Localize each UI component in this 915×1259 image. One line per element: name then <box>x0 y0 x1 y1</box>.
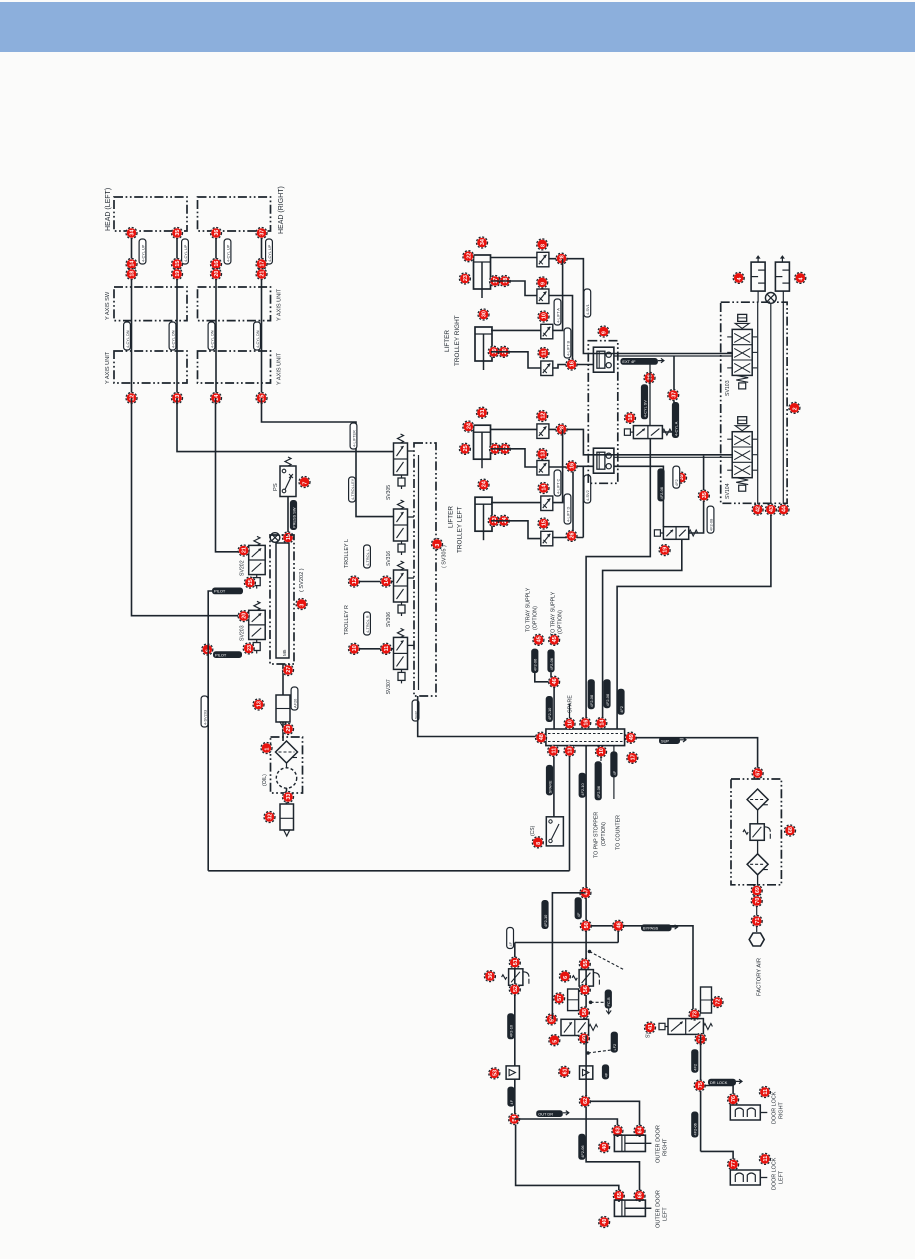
label pill fa <box>541 900 548 929</box>
node tag PS right <box>299 477 310 488</box>
node tag regc b <box>579 984 590 995</box>
svg-text:11: 11 <box>542 350 548 356</box>
flow control valve FCV8 <box>541 531 553 546</box>
wire door lock right <box>705 1086 733 1101</box>
solenoid valve stack SV103 <box>738 314 747 321</box>
node tag rod3 <box>488 346 499 357</box>
node tag cylside2 <box>459 273 470 284</box>
muffler 2 <box>775 262 789 291</box>
label pill pilot bus <box>201 696 208 727</box>
svg-text:17: 17 <box>630 754 636 760</box>
svg-text:70: 70 <box>755 898 761 904</box>
node tag SV203 out <box>243 643 254 654</box>
wire spare port <box>569 704 571 724</box>
node tag odl2 <box>634 1190 645 1201</box>
wire line3 down to SV202 <box>216 398 249 552</box>
node tag 28 <box>556 253 567 264</box>
label pill lc3 <box>507 1087 514 1107</box>
svg-text:( SV305 ): ( SV305 ) <box>442 545 448 568</box>
filter-regulator box <box>276 695 290 722</box>
svg-text:4F2-08: 4F2-08 <box>708 519 713 531</box>
wire filter to pump box <box>282 722 284 741</box>
svg-text:4F2: 4F2 <box>674 479 679 486</box>
node tag CS <box>532 837 543 848</box>
wire line4 down elbow <box>262 398 394 517</box>
svg-text:HEAD (RIGHT): HEAD (RIGHT) <box>278 186 285 234</box>
svg-text:21: 21 <box>242 547 248 553</box>
svg-text:SV306: SV306 <box>386 612 392 627</box>
svg-text:43: 43 <box>769 506 775 512</box>
node tag 32 <box>264 812 275 823</box>
wire frl out <box>757 875 759 885</box>
node tag cyl2 top <box>478 309 489 320</box>
svg-text:31: 31 <box>480 409 486 415</box>
svg-text:(OPTION): (OPTION) <box>601 822 607 846</box>
svg-text:64: 64 <box>638 1127 644 1133</box>
svg-text:SUP: SUP <box>661 738 669 743</box>
svg-text:4-TROL L: 4-TROL L <box>365 548 370 566</box>
svg-text:LIFTER: LIFTER <box>444 330 451 352</box>
svg-text:AF20: AF20 <box>292 698 297 708</box>
svg-text:4: 4 <box>798 278 804 281</box>
wire SV307 to manifold <box>408 644 415 646</box>
svg-text:24: 24 <box>466 423 472 429</box>
regulator small right <box>701 987 712 1013</box>
svg-text:4F2-08: 4F2-08 <box>659 487 664 499</box>
svg-text:PRESS SW: PRESS SW <box>291 507 296 528</box>
svg-text:LIFTER: LIFTER <box>448 506 455 528</box>
valve pilot lower <box>663 527 688 540</box>
svg-text:22: 22 <box>466 253 472 259</box>
wire frl2 <box>757 840 759 853</box>
svg-text:4-CYL DN: 4-CYL DN <box>255 330 260 348</box>
dashed box FRL <box>731 779 781 885</box>
node tag 40a <box>599 1142 610 1153</box>
wire cyl2 cap to FCV3 <box>491 329 541 331</box>
label pill chk r <box>602 1064 609 1079</box>
node tag head4d <box>256 393 267 404</box>
node tag odr1 <box>612 1125 623 1136</box>
svg-text:HEAD (LEFT): HEAD (LEFT) <box>105 188 112 231</box>
regulator left column <box>509 969 523 986</box>
node tag fcv1 <box>537 239 548 250</box>
svg-text:4F2-06: 4F2-06 <box>533 659 538 671</box>
node tag fa2 <box>751 896 762 907</box>
filter box main <box>568 989 579 1011</box>
node tag fm <box>554 993 565 1004</box>
svg-text:72: 72 <box>716 999 722 1005</box>
label pill cs <box>546 765 553 796</box>
node tag 40b <box>599 1217 610 1228</box>
svg-text:4F: 4F <box>612 770 617 775</box>
node tag busC <box>778 504 789 515</box>
svg-text:4: 4 <box>737 278 743 281</box>
node tag 12 <box>349 576 360 587</box>
svg-text:7: 7 <box>303 482 309 485</box>
svg-text:4-LIFTER: 4-LIFTER <box>351 430 356 447</box>
cylinder trolley 2 <box>475 327 492 361</box>
svg-text:51: 51 <box>513 959 519 965</box>
label pill trolley R <box>364 612 371 635</box>
wire cyl4 rod to FCV8 <box>491 521 541 539</box>
node tag 6 <box>202 644 213 655</box>
black arrow pill bypass <box>641 924 678 931</box>
svg-text:PS: PS <box>273 483 279 491</box>
svg-text:25: 25 <box>248 579 254 585</box>
node tag head4a <box>256 228 267 239</box>
muffler 1 <box>751 262 765 291</box>
node tag 27 <box>283 665 294 676</box>
svg-text:4F2-10: 4F2-10 <box>547 707 552 720</box>
svg-text:( SV202 ): ( SV202 ) <box>299 568 305 592</box>
dashed box Y AXIS UNIT row3 left <box>114 351 187 383</box>
node tag 2 <box>789 402 800 413</box>
valve pilot upper <box>633 426 662 439</box>
svg-text:Y AXIS UNIT: Y AXIS UNIT <box>277 352 283 385</box>
svg-text:RIGHT: RIGHT <box>663 1138 669 1156</box>
svg-text:27: 27 <box>286 667 292 673</box>
node tag 19 <box>659 545 670 556</box>
svg-text:4F2: 4F2 <box>619 706 624 713</box>
label pill AF20 <box>291 687 298 710</box>
svg-text:DOOR LOCK: DOOR LOCK <box>772 1157 778 1190</box>
wire sv111 down <box>700 1034 702 1151</box>
wire outer door left rod <box>516 1125 619 1192</box>
svg-text:16: 16 <box>583 720 589 726</box>
wire bus A <box>757 302 759 504</box>
node tag v b <box>578 1033 589 1044</box>
node tag muf2 <box>795 272 806 283</box>
svg-text:68: 68 <box>788 827 794 833</box>
node tag chk l <box>489 1068 500 1079</box>
node tag fcv4 <box>538 348 549 359</box>
svg-text:SV305: SV305 <box>386 485 392 500</box>
svg-text:50: 50 <box>584 922 590 928</box>
wire manifold supply down <box>418 696 546 737</box>
node tag 16 <box>566 359 577 370</box>
svg-text:4-CYL UP: 4-CYL UP <box>225 244 230 262</box>
svg-text:45: 45 <box>552 636 558 642</box>
wire block2 left drop <box>582 466 584 537</box>
node tag odl1 <box>613 1190 624 1201</box>
wire left col horizontal <box>515 942 618 944</box>
junction circle-x main <box>765 293 776 304</box>
label pill tray2 <box>547 649 554 672</box>
valve SV307 <box>394 637 408 669</box>
black arrow pill EXT <box>620 358 664 365</box>
svg-text:35: 35 <box>175 230 181 236</box>
node tag cylside1 <box>463 251 474 262</box>
node tag regc t <box>579 958 590 969</box>
factory air hexagon <box>749 933 764 946</box>
label pill line37 <box>672 402 679 438</box>
node tag 1 <box>261 743 272 754</box>
wire head line 4 <box>261 231 263 398</box>
wire FCV4 out to block1 left <box>553 365 594 369</box>
svg-text:SV202: SV202 <box>240 560 246 576</box>
svg-text:74: 74 <box>699 1036 705 1042</box>
node tag bar r <box>625 732 636 743</box>
node tag SV202 out <box>244 577 255 588</box>
svg-text:Y AXIS SW: Y AXIS SW <box>105 291 111 320</box>
node tag head2c <box>172 269 183 280</box>
label pill lc2 <box>507 1013 514 1039</box>
svg-text:4-CYL UP: 4-CYL UP <box>183 244 188 262</box>
svg-text:FC-B: FC-B <box>606 997 611 1006</box>
node tag v l <box>546 1014 557 1025</box>
wire fa gap <box>756 906 758 916</box>
wire outer door left cap <box>586 1107 639 1192</box>
svg-text:10: 10 <box>352 645 358 651</box>
node tag head1c <box>126 269 137 280</box>
valve SV316 <box>394 509 408 541</box>
svg-text:16: 16 <box>570 463 576 469</box>
label pill head line 2 <box>182 239 189 264</box>
node tag 41 <box>645 1022 656 1033</box>
svg-text:61: 61 <box>562 1068 568 1074</box>
node tag 6b <box>559 971 570 982</box>
node tag busB <box>765 504 776 515</box>
node tag head1d <box>126 393 137 404</box>
node tag tray1 <box>533 634 544 645</box>
filter diamond 2 <box>747 854 768 875</box>
svg-text:53: 53 <box>492 1070 498 1076</box>
svg-text:60: 60 <box>582 1035 588 1041</box>
wire supply from stacks to bar <box>617 515 771 729</box>
svg-text:Y AXIS UNIT: Y AXIS UNIT <box>105 351 111 384</box>
svg-text:55: 55 <box>583 961 589 967</box>
svg-text:4-CYL DN: 4-CYL DN <box>170 330 175 348</box>
label pill manifold bottom <box>412 700 419 721</box>
node tag reg t <box>509 957 520 968</box>
node tag chk m <box>559 1066 570 1077</box>
svg-text:4F2: 4F2 <box>693 1064 698 1071</box>
label pill bar mid <box>588 679 595 709</box>
cylinder trolley 1 <box>474 255 491 289</box>
valve SV111 <box>668 1019 703 1035</box>
svg-text:63: 63 <box>616 1127 622 1133</box>
label pill sv line <box>641 384 648 419</box>
node tag head3a <box>211 228 222 239</box>
wire bus B <box>770 303 772 504</box>
svg-text:4-CYL SV: 4-CYL SV <box>642 400 647 418</box>
node tag SW in <box>283 532 294 543</box>
pilot block upper <box>593 347 614 372</box>
annotation leader to main line 1 <box>590 952 624 970</box>
label pill on line4 elbow <box>349 477 356 502</box>
node tag head1a <box>126 228 137 239</box>
filter diamond 1 <box>747 789 768 810</box>
node tag muf1 <box>733 272 744 283</box>
switch box CS <box>546 817 563 846</box>
node tag head2d <box>172 393 183 404</box>
black arrow pill door lock <box>708 1079 742 1086</box>
svg-text:4F2-06: 4F2-06 <box>596 786 601 798</box>
svg-text:4F2-06: 4F2-06 <box>580 1145 585 1157</box>
svg-text:66: 66 <box>638 1192 644 1198</box>
cylinder trolley 3 <box>474 425 491 459</box>
wire tray join <box>535 673 554 682</box>
node tag 18 <box>625 412 636 423</box>
label pill v2r <box>707 506 714 533</box>
node tag 28b <box>556 424 567 435</box>
svg-text:4-CYL UP: 4-CYL UP <box>267 244 272 262</box>
black arrow pill odr <box>536 1110 569 1117</box>
node tag sv111 t <box>689 1009 700 1020</box>
node tag 54 <box>509 1114 520 1125</box>
node tag 47 <box>580 887 591 898</box>
wire pnp stopper <box>600 757 602 761</box>
wire cyl3 rod to FCV6 <box>491 449 537 467</box>
svg-text:16: 16 <box>570 361 576 367</box>
svg-text:4-SV1: 4-SV1 <box>585 304 590 315</box>
node tag 36 <box>484 971 495 982</box>
flow control valve FCV5 <box>537 424 549 439</box>
valve SV202 <box>249 545 266 574</box>
flow control valve FCV6 <box>537 461 549 476</box>
node tag 11b <box>759 1153 770 1164</box>
node tag dlr <box>728 1094 739 1105</box>
svg-text:9: 9 <box>602 331 608 334</box>
svg-text:4-TROL R: 4-TROL R <box>365 615 370 633</box>
node tag fcv6 <box>537 449 548 460</box>
wire fa hex <box>756 926 758 932</box>
valve SV306 <box>394 570 408 602</box>
svg-text:40: 40 <box>602 1144 608 1150</box>
wire trolley L <box>354 581 394 583</box>
label pill b2 <box>564 494 571 524</box>
svg-text:18: 18 <box>130 271 136 277</box>
wire valve1 down-left <box>586 439 650 723</box>
wire outer door right cap <box>591 1101 640 1126</box>
svg-text:71: 71 <box>755 918 761 924</box>
node tag bar t2 <box>580 718 591 729</box>
svg-text:67: 67 <box>756 770 762 776</box>
node tag frl r <box>785 825 796 836</box>
svg-text:TROLLEY L: TROLLEY L <box>344 539 350 568</box>
svg-text:14: 14 <box>599 720 605 726</box>
node tag bar b1 <box>548 745 559 756</box>
wire block1 aux down to valve <box>649 365 651 426</box>
dashed box Y AXIS UNIT row2 left <box>114 287 187 321</box>
svg-text:10: 10 <box>568 720 574 726</box>
node tag 5 <box>549 1035 560 1046</box>
wire to block2 left <box>573 465 593 467</box>
wire frl1 <box>757 810 759 824</box>
svg-text:LEFT: LEFT <box>663 1207 669 1221</box>
wire bus C <box>782 302 784 504</box>
flow control valve FCV3 <box>541 324 553 339</box>
svg-text:DR LOCK: DR LOCK <box>710 1080 728 1085</box>
label pill counter <box>610 751 617 777</box>
svg-text:11: 11 <box>763 1156 769 1162</box>
node tag doors <box>579 1096 590 1107</box>
svg-text:4F: 4F <box>603 1072 608 1077</box>
label pill head line 1 <box>139 239 146 264</box>
pressure switch PS <box>280 466 296 497</box>
svg-text:TO TRAY SUPPLY: TO TRAY SUPPLY <box>526 587 532 632</box>
label pill vm <box>611 1032 618 1053</box>
node tag cyl1 top <box>477 237 488 248</box>
node tag fcv7 <box>538 483 549 494</box>
pilot block lower <box>593 448 614 473</box>
svg-text:SV104: SV104 <box>725 483 731 499</box>
label pill b3 <box>584 475 591 503</box>
svg-text:RIGHT: RIGHT <box>779 1102 785 1119</box>
node tag dl j <box>694 1080 705 1091</box>
node tag 13 <box>253 699 264 710</box>
blue header banner <box>0 2 915 52</box>
node tag bar l <box>536 732 547 743</box>
svg-text:29: 29 <box>286 726 292 732</box>
node tag manifold right <box>296 599 307 610</box>
label pill a2 <box>564 328 571 358</box>
svg-text:34: 34 <box>480 239 486 245</box>
node tag sv111 b <box>695 1034 706 1045</box>
svg-text:16: 16 <box>214 261 220 267</box>
svg-text:(CS): (CS) <box>530 825 536 836</box>
label pill on line2 <box>350 423 357 449</box>
wire FCV2 out <box>549 296 573 365</box>
valve SV203 <box>249 610 266 639</box>
wire left col down <box>514 943 516 1067</box>
manifold inner line <box>418 455 420 690</box>
svg-text:SV103: SV103 <box>725 380 731 396</box>
wire FCV8 out <box>553 537 584 539</box>
svg-text:PILOT: PILOT <box>215 652 227 657</box>
wire head line 2 <box>176 231 178 398</box>
node tag 11 <box>381 643 392 654</box>
wire FCV1 out to block1 <box>549 259 733 354</box>
node tag 9 <box>598 326 609 337</box>
svg-text:4F: 4F <box>576 912 581 917</box>
distribution bar <box>546 729 625 746</box>
svg-text:18: 18 <box>628 415 634 421</box>
svg-text:SV307: SV307 <box>386 679 392 694</box>
cylinder trolley 4 <box>475 497 492 531</box>
wire main line down from bar <box>585 746 587 1020</box>
wire valve1 right up <box>662 356 674 432</box>
node tag SV203 left <box>238 611 249 622</box>
svg-text:58: 58 <box>582 1009 588 1015</box>
node tag tray2 <box>549 634 560 645</box>
label pill odl <box>578 1134 585 1160</box>
label pill leftcol <box>507 928 514 949</box>
svg-text:65: 65 <box>617 1192 623 1198</box>
svg-text:15: 15 <box>175 261 181 267</box>
wire bypass right <box>591 926 693 1010</box>
node tag 29 <box>283 724 294 735</box>
wire SV316 to manifold <box>408 516 415 518</box>
svg-text:(OIL): (OIL) <box>262 774 268 786</box>
svg-text:45: 45 <box>537 636 543 642</box>
node tag frl t <box>752 768 763 779</box>
wire bar right to FRL <box>636 738 758 779</box>
svg-text:8: 8 <box>540 244 546 247</box>
wire block1 right <box>614 355 733 357</box>
node tag fa3 <box>751 916 762 927</box>
svg-text:20: 20 <box>242 613 248 619</box>
wire cyl3 cap to FCV5 <box>491 428 537 430</box>
valve main 3/2 <box>561 1019 589 1035</box>
svg-text:(OPTION): (OPTION) <box>558 610 564 634</box>
node tag fa1 <box>751 885 762 896</box>
svg-text:46: 46 <box>616 922 622 928</box>
cylinder OUTER DOOR RIGHT <box>614 1135 645 1151</box>
svg-text:SPARE: SPARE <box>547 780 552 793</box>
node tag head3d <box>211 393 222 404</box>
solenoid valve stack SV104 <box>738 417 747 424</box>
